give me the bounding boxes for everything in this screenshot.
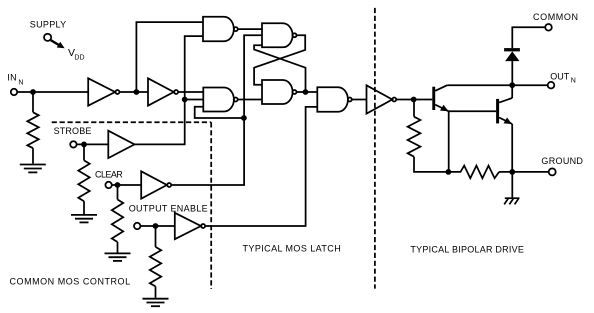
- NAND A2: [203, 88, 237, 112]
- svg-text:COMMON: COMMON: [533, 12, 578, 22]
- terminal OUT: [548, 82, 555, 89]
- inverter U4: [141, 171, 171, 198]
- resistor R1: [27, 112, 38, 148]
- resistor R2: [78, 160, 89, 201]
- dashed boundary horizontal (common mos control): [52, 121, 212, 123]
- NAND B: [262, 23, 297, 47]
- wire U5 output right and up to NAND D input 2: [205, 107, 317, 226]
- wire ground node down to chassis ground: [511, 172, 513, 198]
- wire C output to NAND D input 1: [297, 91, 318, 93]
- arrow to VDD: [51, 40, 65, 48]
- inverter U1: [88, 78, 119, 105]
- wire strobe branch to NAND A2 input 2: [185, 99, 204, 101]
- wire A2 output to NAND C input 2: [238, 99, 262, 101]
- wire R3 to ground: [117, 242, 119, 253]
- wire U6 output to transistor Q1 base: [396, 99, 432, 101]
- node ground junction: [509, 169, 515, 175]
- inverter U5: [175, 213, 205, 239]
- wire U3 output right and up to NAND A1 input 2: [135, 36, 204, 144]
- node OE junction: [153, 223, 159, 229]
- dashed boundary vertical (mos latch left): [210, 122, 212, 289]
- node bias junction: [411, 97, 417, 103]
- svg-text:GROUND: GROUND: [541, 156, 583, 166]
- terminal COMMON: [545, 24, 552, 31]
- wire R6 to ground node: [499, 171, 548, 173]
- wire U1 to U2: [120, 91, 148, 93]
- svg-text:TYPICAL MOS LATCH: TYPICAL MOS LATCH: [243, 244, 341, 254]
- wire IN to inverter U1: [18, 91, 89, 93]
- svg-text:DD: DD: [74, 55, 84, 62]
- wire R2 to ground: [83, 201, 85, 214]
- wire clear node down to resistor R3: [117, 185, 119, 200]
- label IN_N: [7, 73, 23, 87]
- wire U2 to NAND A2 input 1: [178, 91, 203, 93]
- resistor R4: [150, 247, 161, 287]
- ground (input): [20, 165, 46, 173]
- transistor Q1: [432, 85, 448, 111]
- svg-text:OUT: OUT: [550, 71, 570, 81]
- svg-text:TYPICAL BIPOLAR DRIVE: TYPICAL BIPOLAR DRIVE: [410, 244, 524, 254]
- svg-text:COMMON MOS CONTROL: COMMON MOS CONTROL: [10, 277, 131, 287]
- wire OE node down to resistor R4: [155, 226, 157, 247]
- ground (clear): [105, 253, 131, 261]
- terminal SUPPLY: [44, 34, 51, 41]
- terminal GROUND: [549, 168, 556, 175]
- wire output node up to diode D1: [511, 61, 513, 85]
- resistor R6: [448, 166, 499, 179]
- NAND A1: [203, 17, 238, 42]
- label VDD: [68, 47, 85, 62]
- svg-text:OUTPUT ENABLE: OUTPUT ENABLE: [129, 203, 208, 213]
- terminal IN: [11, 89, 17, 95]
- node input junction: [30, 89, 36, 95]
- ground (strobe): [71, 215, 97, 223]
- wire Q2 collector up to output node: [511, 85, 513, 98]
- diode D1: [504, 48, 520, 61]
- wire Q1 collector to output node: [447, 84, 512, 86]
- node strobe junction: [81, 142, 87, 148]
- wire Q1 emitter down to resistor rail: [448, 111, 450, 172]
- wire output node to OUT terminal: [512, 84, 547, 86]
- wire D1 cathode to COMMON terminal: [512, 27, 545, 48]
- dashed boundary vertical (bipolar drive left): [374, 8, 376, 289]
- inverter U6: [367, 85, 397, 113]
- chassis ground: [504, 198, 519, 204]
- resistor R5: [408, 117, 421, 157]
- terminal OUTPUT ENABLE: [134, 223, 140, 229]
- resistor R3: [112, 200, 123, 243]
- NAND D: [317, 87, 352, 112]
- svg-text:CLEAR: CLEAR: [95, 169, 123, 179]
- svg-text:N: N: [18, 79, 23, 86]
- wire D output to inverter U6: [352, 99, 367, 101]
- wire bias node down to resistor R5: [413, 100, 415, 117]
- wire Q2 emitter down to ground node: [511, 124, 513, 172]
- node output junction: [509, 82, 515, 88]
- wire Q1 emitter to Q2 base: [449, 110, 496, 112]
- svg-text:IN: IN: [7, 73, 16, 83]
- buffer U3: [108, 131, 134, 158]
- wire clear branch to NAND A2 input 3: [195, 107, 244, 118]
- wire R5 to emitter rail: [414, 157, 448, 172]
- svg-text:STROBE: STROBE: [54, 126, 92, 136]
- wire C output cross-couple to NAND B input 3: [254, 45, 305, 92]
- terminal CLEAR: [105, 182, 111, 188]
- label OUT_N: [550, 71, 576, 84]
- svg-text:SUPPLY: SUPPLY: [30, 19, 66, 29]
- node clear junction: [115, 182, 121, 188]
- svg-text:N: N: [571, 78, 576, 85]
- wire U4 output right and up to NAND B input 2: [171, 35, 262, 185]
- ground (output enable): [143, 299, 169, 307]
- wire OE to inverter U5: [141, 225, 175, 227]
- wire R4 to ground: [155, 286, 157, 297]
- wire A1 output to NAND B input 1: [238, 28, 262, 30]
- wire node up to NAND A1 input 1: [136, 22, 203, 92]
- node clear branch: [241, 115, 247, 121]
- NAND C: [262, 80, 297, 104]
- node strobe branch: [182, 97, 188, 103]
- node after U1: [134, 89, 140, 95]
- node emitter rail left: [446, 169, 452, 175]
- wire input node down to resistor R1: [32, 92, 34, 112]
- inverter U2: [148, 78, 178, 105]
- wire R1 to ground: [32, 148, 34, 163]
- wire B output cross-couple to NAND C input 1: [254, 35, 305, 85]
- wire strobe node down to resistor R2: [83, 144, 85, 160]
- wire CLEAR to inverter U4: [112, 184, 141, 186]
- transistor Q2: [496, 98, 512, 124]
- wire STROBE to buffer U3: [77, 143, 108, 145]
- terminal STROBE: [70, 141, 76, 147]
- node C output branch: [303, 89, 309, 95]
